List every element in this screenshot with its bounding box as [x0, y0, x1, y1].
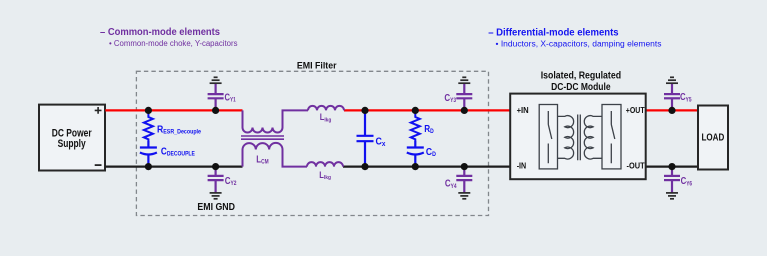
junction node (RESR bottom): [145, 163, 152, 170]
svg-text:Isolated, Regulated: Isolated, Regulated: [541, 71, 621, 82]
ground (below CY2): [210, 193, 222, 199]
capacitor CY5: [664, 84, 680, 111]
svg-text:+OUT: +OUT: [626, 106, 645, 115]
transformer core: [578, 115, 581, 161]
transformer primary winding: [558, 116, 574, 159]
junction node (RESR top): [145, 107, 152, 114]
capacitor CY1: [208, 84, 224, 111]
resistor R_ESR_Decouple: [144, 110, 153, 141]
svg-text:DC-DC Module: DC-DC Module: [551, 82, 611, 93]
inductor L_lkg (top): [308, 106, 344, 110]
DC power supply box: [39, 105, 105, 171]
LOAD box: [698, 106, 728, 170]
wire: purple bottom (choke to Llkg): [282, 166, 308, 168]
junction node (CY2): [212, 163, 219, 170]
ground (above CY3): [458, 77, 470, 83]
svg-text:Supply: Supply: [58, 138, 86, 150]
wire: top rail red (module to load): [646, 109, 698, 111]
transformer secondary winding: [584, 116, 602, 159]
ground (below CY6): [666, 193, 678, 199]
svg-text:• Inductors, X-capacitors, dam: • Inductors, X-capacitors, damping eleme…: [496, 40, 662, 49]
common-mode choke core: [241, 136, 284, 139]
capacitor C_D: [407, 141, 424, 167]
wire: top rail red (Llkg to module): [344, 109, 510, 111]
EMI filter dashed boundary box: [136, 71, 488, 215]
junction node (CY1): [212, 107, 219, 114]
junction node (RD bottom): [412, 163, 419, 170]
svg-text:EMI GND: EMI GND: [197, 202, 235, 213]
capacitor CY6: [664, 167, 680, 193]
junction node (CX bottom): [361, 163, 368, 170]
svg-text:-OUT: -OUT: [627, 162, 645, 171]
wire: bottom rail black (Llkg to module): [343, 166, 510, 168]
capacitor C_DECOUPLE: [140, 141, 157, 167]
svg-text:Cx: Cx: [376, 137, 387, 148]
junction node (CY3): [461, 107, 468, 114]
switch block (primary side): [539, 105, 557, 169]
wire: purple top (choke to Llkg): [282, 109, 309, 111]
junction node (CY5): [668, 107, 675, 114]
ground (above CY1): [210, 77, 222, 83]
junction node (RD top): [412, 107, 419, 114]
svg-text:– Differential-mode elements: – Differential-mode elements: [488, 27, 619, 38]
plus terminal: [95, 107, 102, 114]
switch symbol secondary: [611, 111, 615, 163]
svg-text:EMI Filter: EMI Filter: [297, 61, 337, 72]
DC-DC module box: [510, 94, 646, 180]
junction node (CY6): [668, 163, 675, 170]
common-mode choke L_CM top winding: [243, 110, 283, 132]
junction node (CX top): [361, 107, 368, 114]
inductor L_lkg (bottom): [307, 162, 343, 167]
svg-text:• Common-mode choke, Y-capacit: • Common-mode choke, Y-capacitors: [109, 39, 238, 48]
capacitor CY2: [208, 167, 224, 193]
capacitor CY4: [456, 167, 472, 193]
wire: bottom rail black (supply to choke): [105, 166, 242, 168]
ground (above CY5): [666, 77, 678, 83]
junction node (CY4): [461, 163, 468, 170]
resistor R_D: [411, 110, 420, 141]
svg-text:-IN: -IN: [517, 162, 527, 171]
common-mode choke L_CM bottom winding: [243, 143, 283, 167]
wire: bottom rail black (module to load): [646, 166, 698, 168]
capacitor CY3: [456, 84, 472, 111]
minus terminal: [95, 164, 102, 166]
ground (below CY4): [458, 193, 470, 199]
svg-text:– Common-mode elements: – Common-mode elements: [100, 27, 220, 38]
switch block (secondary side): [602, 105, 621, 169]
svg-text:+IN: +IN: [517, 106, 529, 115]
switch symbol primary: [548, 111, 552, 163]
capacitor C_X: [357, 110, 374, 166]
svg-text:LOAD: LOAD: [702, 132, 725, 143]
wire: top rail red (supply to choke): [105, 109, 242, 111]
